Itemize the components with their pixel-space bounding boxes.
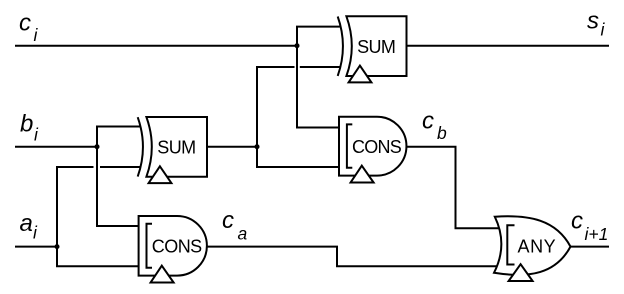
wire si output [407,45,610,47]
U3 input bracket [147,224,153,268]
U4 input bracket [347,124,352,167]
U3 body [139,216,207,276]
wire ci to U2 upper input [296,26,340,28]
wire ai to U3 lower input [56,265,140,267]
wire ci riser [296,27,298,128]
U2 hysteresis triangle [349,66,372,83]
U4 body [339,117,406,176]
wire bi riser [96,127,98,227]
wire ai riser [56,167,58,266]
wire ci to U4 upper input [296,127,340,129]
U1 hysteresis triangle [149,166,172,183]
wire U1out riser [256,67,258,167]
svg-text:b: b [437,123,447,143]
svg-text:CONS: CONS [152,236,202,256]
label c_a [222,207,248,244]
wire ci+1 output [569,246,609,248]
label c_b [422,108,447,144]
svg-text:c: c [571,208,583,235]
svg-text:CONS: CONS [352,137,402,157]
svg-text:SUM: SUM [157,138,196,158]
wire U1 output [207,146,257,148]
label c_i+1 [571,208,608,245]
U1 body [146,117,207,177]
op U5 ANY gate (OR) [494,216,571,281]
U2 body [346,16,406,76]
node junction U1out [255,144,260,149]
U3 hysteresis triangle [151,266,174,283]
svg-text:s: s [587,8,599,35]
U5 hysteresis triangle [509,264,533,281]
U5 input bracket [507,225,514,264]
label b_i [20,111,39,145]
U5 body [494,216,571,275]
svg-text:a: a [238,224,248,244]
svg-text:b: b [20,111,33,138]
svg-text:c: c [422,108,434,135]
wire ai input [15,246,57,248]
svg-text:i+1: i+1 [585,224,609,244]
wire U1out to U2 lower input with hop over ci riser [256,66,340,68]
svg-text:c: c [19,10,31,37]
svg-text:c: c [222,207,234,234]
wire U1out to U4 lower input [256,166,340,168]
op U1 SUM gate left (XOR box) [138,117,207,183]
wire bi input [15,146,97,148]
U4 hysteresis triangle [351,166,374,183]
label c_i [19,10,39,46]
label s_i [587,8,606,40]
wire ca from U3 to U5 lower input [207,247,500,267]
node junction ci [295,43,300,48]
wire bi to U3 upper input [96,225,140,227]
svg-text:SUM: SUM [357,37,396,57]
node junction bi [95,144,100,149]
svg-text:ANY: ANY [518,236,556,256]
node junction ai [55,244,60,249]
wire cb from U4 to U5 upper input [407,147,502,229]
wire bi to U1 upper input [96,126,140,128]
op U3 CONS gate left (C-element) [139,216,207,283]
U1 outer input arc [138,117,143,176]
op U4 CONS gate right (C-element) [339,117,406,183]
svg-text:a: a [20,210,33,237]
op U2 SUM gate top (XOR box) [338,16,407,82]
U2 outer input arc [338,17,343,76]
wire ai to U1 lower input with hop over bi riser [56,166,140,168]
label a_i [20,210,39,243]
wire ci input [15,45,297,47]
